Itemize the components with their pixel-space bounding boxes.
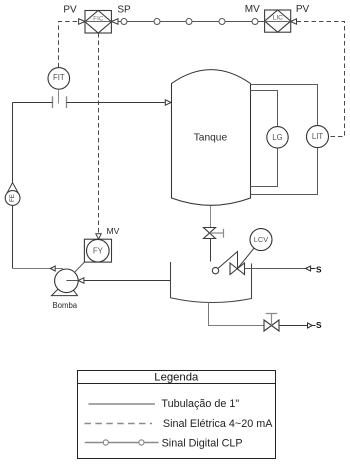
node circles on digital line <box>121 19 258 25</box>
wire: LIC PV dashed from LIT <box>297 22 345 137</box>
flow element FE circle <box>5 191 20 206</box>
svg-text:LG: LG <box>272 133 282 142</box>
wire: FIC PV dashed line from FIT <box>59 22 79 68</box>
legend sample: tubing line <box>89 403 156 405</box>
arrow into FIC right (SP) <box>111 19 118 24</box>
svg-text:S: S <box>316 265 322 275</box>
wire: FIT tap line <box>58 89 60 103</box>
op FIC controller U1 square+diamond <box>85 11 111 34</box>
svg-text:Tubulação de 1": Tubulação de 1" <box>161 398 239 410</box>
pipe: pump discharge horizontal <box>13 268 64 270</box>
wire: FIC MV dashed down to FY <box>98 33 100 234</box>
tank Tanque body <box>172 70 251 206</box>
svg-text:MV: MV <box>106 226 119 236</box>
float ball <box>212 267 218 273</box>
pump internal line <box>66 280 78 282</box>
svg-text:S: S <box>316 320 322 330</box>
valve V1 (tank drain, vertical bowtie) <box>204 228 216 239</box>
pump Bomba circle <box>55 269 79 293</box>
LCV stem to bubble <box>237 248 254 269</box>
svg-text:PV: PV <box>296 4 310 15</box>
arrow (sewer, lower) <box>308 323 313 328</box>
svg-text:FIC: FIC <box>93 15 104 22</box>
svg-text:Sinal Digital CLP: Sinal Digital CLP <box>162 437 243 449</box>
arrow on discharge (flow left) <box>50 266 55 271</box>
svg-text:MV: MV <box>245 4 260 15</box>
orifice flange bars <box>53 96 67 108</box>
op LIC controller U2 square+diamond <box>265 10 291 32</box>
svg-text:LCV: LCV <box>254 235 268 244</box>
svg-text:Bomba: Bomba <box>52 301 77 310</box>
pipe: pump suction from sump <box>84 280 171 282</box>
instrument FY circle <box>87 239 110 262</box>
svg-text:SP: SP <box>117 5 131 16</box>
wire: digital SP line FIC-LIC <box>118 21 265 23</box>
valve LCV bowtie <box>230 263 245 275</box>
FY to pump linkage <box>75 262 85 272</box>
pipe: valve V2 to sewer <box>279 325 308 327</box>
svg-text:PV: PV <box>63 5 77 16</box>
legend sample: digital signal line <box>85 442 159 444</box>
pipe: sump bottom drain <box>209 302 265 325</box>
arrow into LIC right (PV) <box>291 19 297 24</box>
svg-text:LIT: LIT <box>312 132 324 141</box>
instrument LIT <box>307 126 329 148</box>
pipe: valve V1 to sump <box>210 239 212 262</box>
pipe: discharge to orifice (left segment) <box>13 102 53 104</box>
pump stand <box>52 281 78 296</box>
wire: LG standpipe loop <box>251 91 278 187</box>
arrow into FIC left <box>79 19 85 24</box>
legend sample: electric signal dashed <box>85 423 153 425</box>
svg-text:LIC: LIC <box>273 15 283 22</box>
legend header separator <box>78 383 276 385</box>
sump vessel (open) <box>171 262 252 303</box>
svg-text:FE: FE <box>9 194 16 202</box>
instrument LG <box>267 127 288 148</box>
pipe: left riser <box>12 103 14 184</box>
wire: LIT standpipe loop <box>251 85 318 195</box>
valve V2 (drain bowtie) <box>264 320 279 331</box>
valve V2 stem + handle <box>266 314 278 326</box>
pipe: tank bottom outlet <box>210 206 212 228</box>
legend box <box>78 371 276 459</box>
valve V1 stem + handle <box>210 229 224 238</box>
flow element FE triangle <box>7 183 19 194</box>
pipe: orifice to tank <box>67 102 166 104</box>
svg-text:Tanque: Tanque <box>194 132 228 143</box>
arrow into FY top <box>96 234 101 239</box>
svg-text:Legenda: Legenda <box>154 371 199 383</box>
instrument FIT <box>48 68 70 90</box>
instrument FY square <box>84 239 111 262</box>
arrow into pump suction <box>78 278 84 283</box>
arrow (sewer, upper) <box>306 266 311 271</box>
pipe: riser below FE <box>12 205 14 268</box>
svg-text:FY: FY <box>93 246 104 255</box>
float arm <box>218 252 237 269</box>
instrument LCV <box>250 229 272 251</box>
pipe: LCV outlet to sewer <box>245 268 306 270</box>
svg-text:FIT: FIT <box>53 73 65 82</box>
svg-text:Sinal Elétrica 4~20 mA: Sinal Elétrica 4~20 mA <box>163 418 273 430</box>
arrow into tank inlet <box>165 100 171 105</box>
